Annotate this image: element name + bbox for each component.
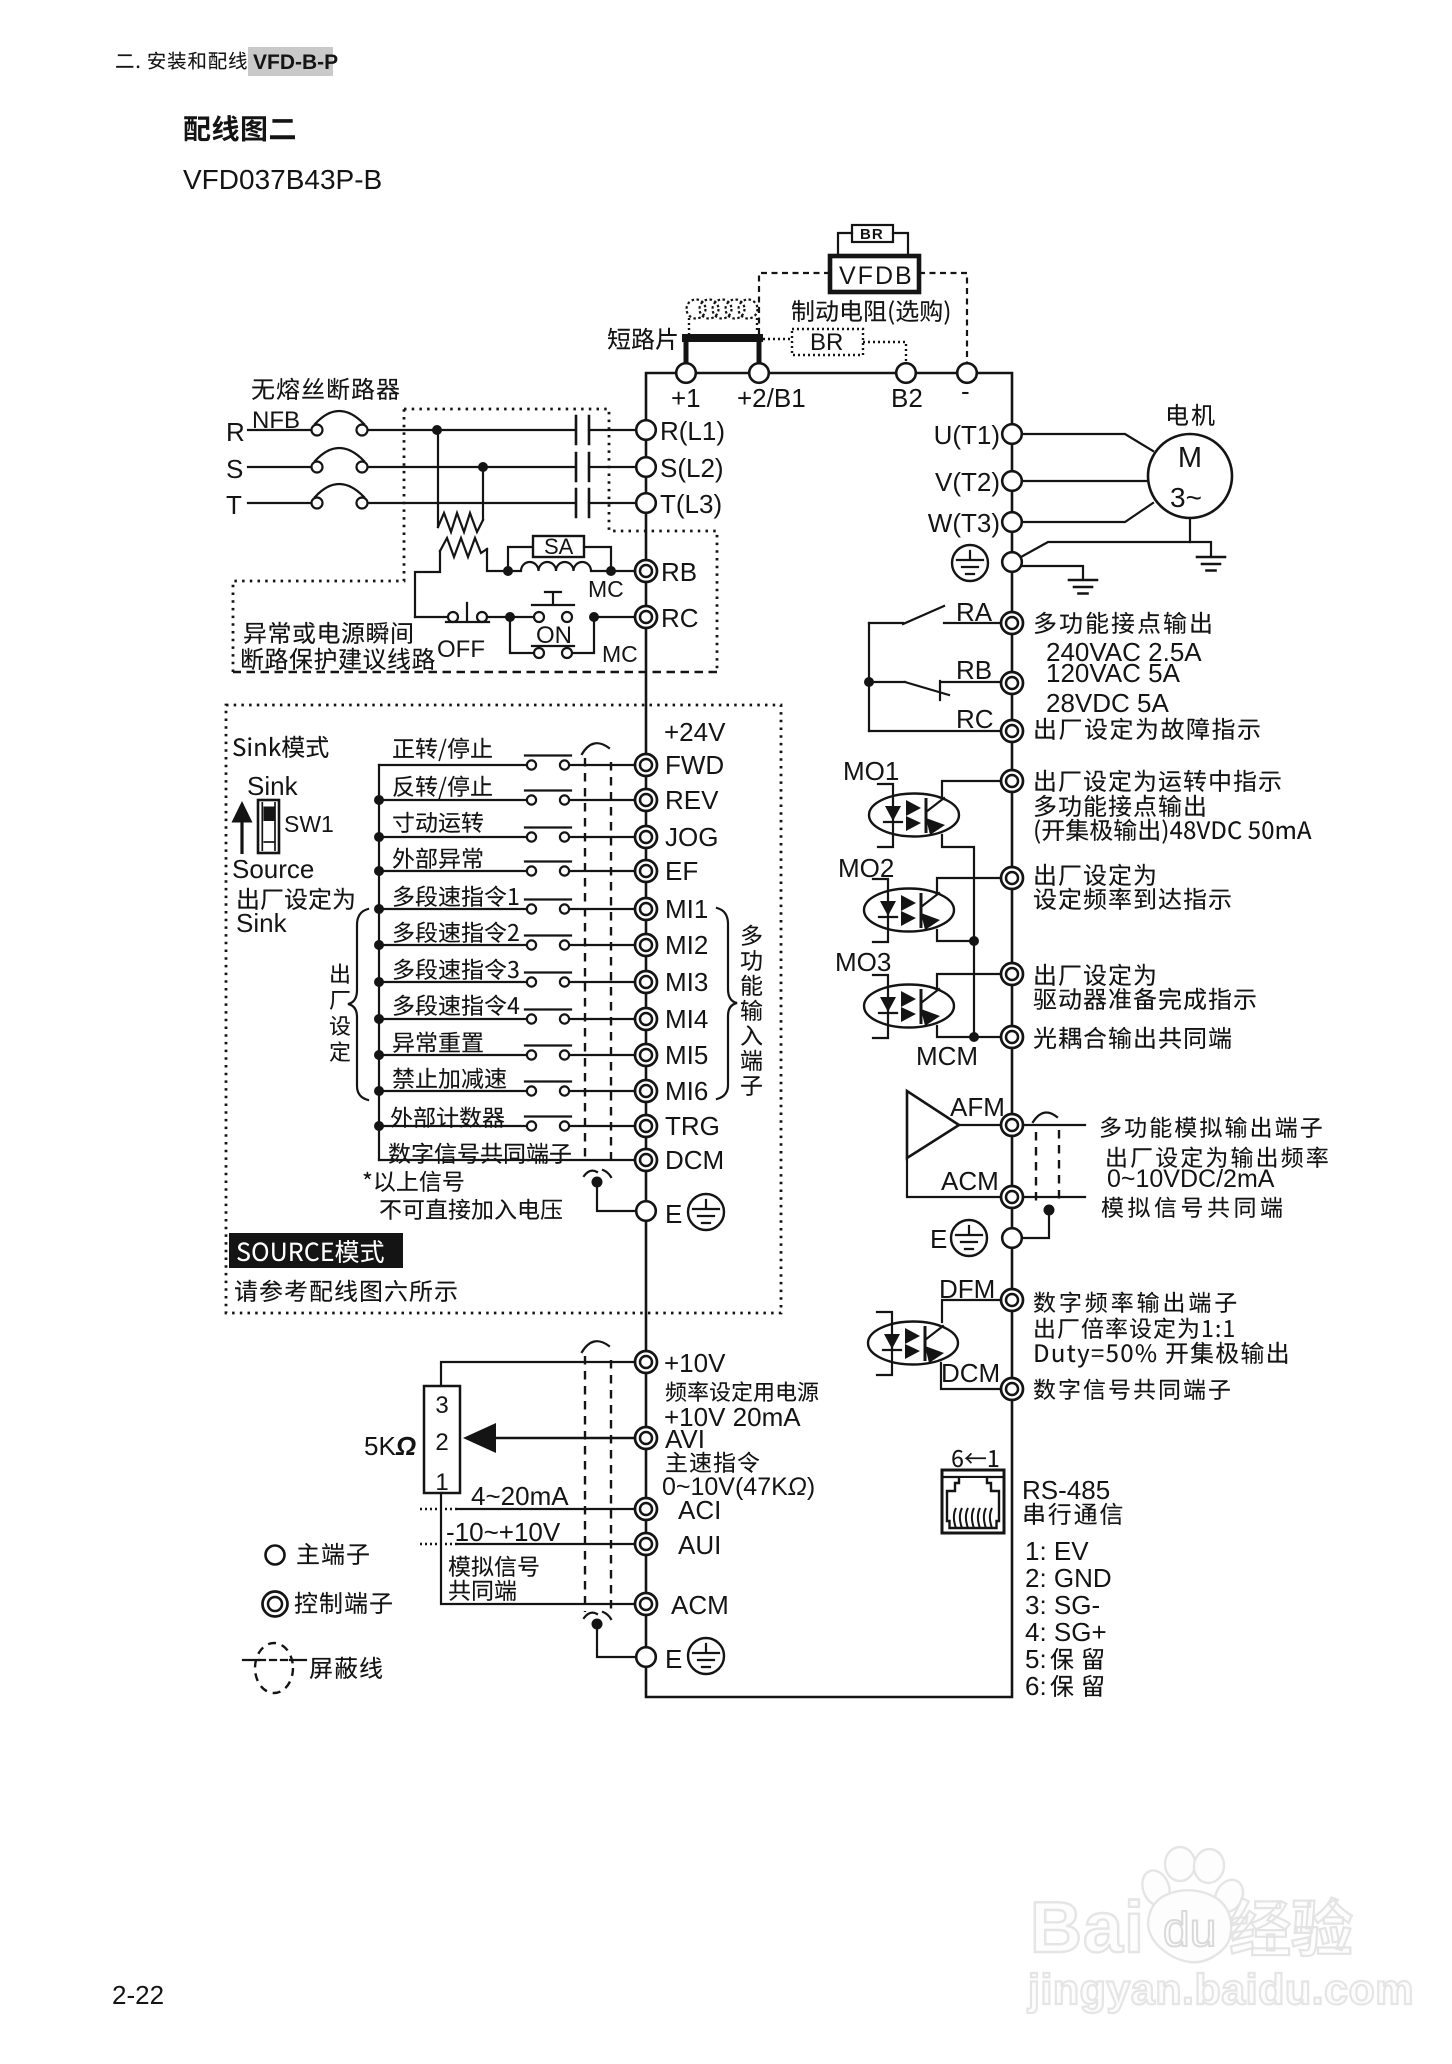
svg-text:DCM: DCM xyxy=(665,1145,724,1175)
wire S to filter xyxy=(368,466,574,468)
label 光耦合输出共同端 xyxy=(1034,1027,1231,1049)
svg-text:RB: RB xyxy=(661,557,697,587)
svg-text:Sink: Sink xyxy=(236,908,288,938)
wire EF row xyxy=(379,870,526,872)
svg-text:1: EV: 1: EV xyxy=(1025,1536,1089,1566)
surge absorber SA box xyxy=(533,536,584,557)
junction JOG bus xyxy=(374,832,384,842)
wire MI5 row xyxy=(379,1054,526,1056)
junction MI6 bus xyxy=(374,1086,384,1096)
shield drain hat analog xyxy=(584,1612,611,1619)
vtext 出 xyxy=(331,964,349,984)
wire earth up to motor run xyxy=(1021,542,1190,557)
wire SA parallel left xyxy=(508,547,533,571)
wire relay common xyxy=(868,623,870,731)
capacitor T xyxy=(576,489,589,517)
junction MI5 bus xyxy=(374,1050,384,1060)
wire DFM collector xyxy=(942,1300,1001,1322)
svg-text:MI2: MI2 xyxy=(665,930,708,960)
earth symbol E digital xyxy=(688,1194,724,1230)
wire pot pin1 to ACM xyxy=(441,1493,635,1604)
earth symbol E out xyxy=(951,1220,987,1256)
svg-text:4~20mA: 4~20mA xyxy=(471,1481,569,1511)
svg-text:ACM: ACM xyxy=(671,1590,729,1620)
label 模拟信号共同端 xyxy=(1102,1197,1282,1218)
terminal AFM xyxy=(1001,1114,1023,1136)
connector RJ11 pins xyxy=(954,1508,992,1528)
switch SW1 arrow xyxy=(240,820,243,854)
svg-text:V(T2): V(T2) xyxy=(935,467,1000,497)
wire S drop xyxy=(482,467,484,520)
svg-text:MC: MC xyxy=(588,576,624,602)
wire T to filter xyxy=(368,502,574,504)
wire ACM ext xyxy=(1023,1196,1085,1198)
svg-text:E: E xyxy=(665,1644,682,1674)
terminal MI3 xyxy=(635,971,657,993)
svg-text:FWD: FWD xyxy=(665,750,724,780)
wire shield to E xyxy=(597,1182,636,1211)
reactor coil (optional DC choke, dashed) xyxy=(689,318,757,335)
label 异常重置 xyxy=(393,1032,483,1053)
wire shield to E out xyxy=(1022,1210,1049,1238)
breaker NFB pole R xyxy=(312,425,323,436)
wire S to terminal xyxy=(589,466,636,468)
junction MI3 bus xyxy=(374,977,384,987)
inverter outline box xyxy=(646,373,1012,1697)
wire MO1 emitter xyxy=(942,835,974,941)
terminal B2 xyxy=(896,363,916,383)
optocoupler DFM xyxy=(868,1312,958,1375)
terminal DFM xyxy=(1001,1289,1023,1311)
svg-text:0~10VDC/2mA: 0~10VDC/2mA xyxy=(1107,1165,1275,1193)
shield arc xyxy=(582,743,609,754)
contact MC auxiliary (parallel) xyxy=(510,617,594,653)
wire MO2 collector xyxy=(937,878,1001,894)
label 多功能接点输出2 xyxy=(1035,795,1205,817)
terminal earth inverter xyxy=(1002,552,1022,572)
svg-text:TRG: TRG xyxy=(665,1111,720,1141)
vtext 设 xyxy=(330,1016,350,1036)
dashed box sink/source section xyxy=(226,705,781,1313)
terminal RB xyxy=(1001,672,1023,694)
svg-text:B2: B2 xyxy=(891,383,923,413)
node ON right xyxy=(589,612,599,622)
earth symbol inverter xyxy=(952,545,988,581)
wire to RB xyxy=(611,570,636,572)
wire dashed VFDB right xyxy=(919,273,967,362)
junction REV bus xyxy=(374,795,384,805)
svg-text:BR: BR xyxy=(860,226,884,243)
svg-text:du: du xyxy=(1163,1904,1216,1957)
label 出厂设定为b xyxy=(1035,964,1154,986)
svg-text:+2/B1: +2/B1 xyxy=(737,383,806,413)
vtext 功 xyxy=(741,950,762,971)
wire JOG row xyxy=(379,836,526,838)
wire MI6 row xyxy=(379,1090,526,1092)
terminal RA xyxy=(1001,612,1023,634)
svg-text:RC: RC xyxy=(956,704,994,734)
terminal +10V xyxy=(635,1351,657,1373)
terminal V(T2) xyxy=(1002,471,1022,491)
wire R to filter xyxy=(368,429,574,431)
node MC coil left xyxy=(503,566,513,576)
label 频率设定用电源 xyxy=(666,1381,819,1402)
switch TRG xyxy=(525,1117,571,1131)
switch SW1 body xyxy=(258,800,279,853)
svg-text:jingyan.baidu.com: jingyan.baidu.com xyxy=(1027,1966,1414,2014)
wire T in xyxy=(248,502,311,504)
svg-text:Bai: Bai xyxy=(1030,1888,1145,1968)
wire DCM row xyxy=(379,1159,635,1161)
wire ACI dotted stub xyxy=(420,1508,458,1510)
svg-text:S: S xyxy=(226,454,243,484)
svg-text:MI1: MI1 xyxy=(665,894,708,924)
node MC coil right xyxy=(606,566,616,576)
brake unit VFDB box xyxy=(830,256,919,292)
wire BR leads xyxy=(838,233,908,256)
wire REV row xyxy=(379,799,526,801)
resistor lower zigzag xyxy=(440,538,487,557)
contact RA (NO) xyxy=(869,606,1001,624)
wire R in xyxy=(248,429,311,431)
wire MCM bus xyxy=(974,941,1001,1037)
svg-text:E: E xyxy=(930,1224,947,1254)
label 模拟信号 xyxy=(449,1556,539,1577)
resistor BR (small box) xyxy=(852,225,893,242)
breaker NFB pole S xyxy=(312,462,323,473)
shield drain dot analog xyxy=(592,1619,603,1630)
label 数字信号共同端子2 xyxy=(1034,1379,1230,1400)
svg-text:-10~+10V: -10~+10V xyxy=(446,1517,561,1547)
vtext 子 xyxy=(741,1076,762,1096)
label 外部计数器 xyxy=(391,1107,505,1128)
terminal MI4 xyxy=(635,1008,657,1030)
svg-text:AVI: AVI xyxy=(665,1424,705,1454)
svg-text:MCM: MCM xyxy=(916,1041,978,1071)
wire MO2 emitter xyxy=(937,930,974,941)
terminal MO2 xyxy=(1001,867,1023,889)
breaker NFB pole T xyxy=(312,498,323,509)
legend 主端子 xyxy=(297,1543,369,1565)
label 出厂设定为a xyxy=(1035,864,1154,886)
optocoupler MO3 xyxy=(864,975,954,1038)
capacitor S xyxy=(576,453,589,481)
svg-text:REV: REV xyxy=(665,785,719,815)
terminal ACM out xyxy=(1001,1186,1023,1208)
ground inverter xyxy=(1069,580,1097,594)
legend main terminal xyxy=(266,1546,285,1565)
junction TRG bus xyxy=(374,1121,384,1131)
svg-text:3~: 3~ xyxy=(1170,482,1202,513)
terminal E digital xyxy=(636,1201,656,1221)
vtext 端 xyxy=(741,1050,762,1071)
legend shielded wire xyxy=(255,1643,293,1693)
svg-text:Source: Source xyxy=(232,854,314,884)
label 反转/停止 xyxy=(393,776,492,800)
label 设定频率到达指示 xyxy=(1034,888,1231,910)
junction EF bus xyxy=(374,866,384,876)
connector RJ11 cavity xyxy=(947,1478,999,1528)
shield drain hat xyxy=(584,1170,611,1177)
junction dot R xyxy=(432,425,442,435)
wire R drop xyxy=(437,430,439,527)
connector RJ11 outer xyxy=(942,1470,1004,1533)
terminal MO1 xyxy=(1001,770,1023,792)
terminal EF xyxy=(635,860,657,882)
svg-text:MI4: MI4 xyxy=(665,1004,708,1034)
svg-text:R: R xyxy=(226,417,245,447)
vtext 多 xyxy=(742,925,762,946)
label 出厂设定为故障指示 xyxy=(1035,718,1259,740)
watermark paw xyxy=(1138,1847,1249,1962)
svg-text:ACI: ACI xyxy=(678,1495,721,1525)
svg-text:4: SG+: 4: SG+ xyxy=(1025,1617,1107,1647)
wire MI2 row xyxy=(379,944,526,946)
wire ACM from amp xyxy=(907,1158,1001,1197)
title 配线图二 xyxy=(184,115,295,141)
wire dotted BR left xyxy=(763,338,792,340)
svg-text:ACM: ACM xyxy=(941,1166,999,1196)
svg-text:MI5: MI5 xyxy=(665,1040,708,1070)
wire MI1 row xyxy=(379,908,526,910)
label 短路片 xyxy=(608,328,677,350)
svg-text:T(L3): T(L3) xyxy=(660,489,722,519)
svg-text:S(L2): S(L2) xyxy=(660,453,724,483)
vtext 定 xyxy=(330,1041,350,1062)
terminal JOG xyxy=(635,826,657,848)
label 禁止加减速 xyxy=(393,1068,506,1089)
junction relay xyxy=(864,677,874,687)
pushbutton OFF xyxy=(415,616,447,618)
label 多段速指令4 xyxy=(394,995,520,1017)
shorting bar (short-circuit plate) xyxy=(682,334,763,342)
shield wires AFM dashed xyxy=(1036,1130,1059,1203)
svg-text:-: - xyxy=(961,376,970,406)
label 共同端 xyxy=(449,1580,516,1601)
legend 控制端子 xyxy=(295,1592,392,1614)
capacitor R xyxy=(576,416,589,444)
svg-text:2: 2 xyxy=(435,1429,448,1456)
label 数字频率输出端子 xyxy=(1034,1292,1236,1314)
label 多段速指令3 xyxy=(394,959,519,981)
svg-text:VFD037B43P-B: VFD037B43P-B xyxy=(183,164,382,195)
label 驱动器准备完成指示 xyxy=(1034,988,1256,1011)
label 数字信号共同端子 xyxy=(389,1143,571,1164)
wire dashed VFDB left xyxy=(759,273,830,335)
pushbutton ON upper contact xyxy=(534,612,544,622)
amplifier AFM xyxy=(907,1091,959,1158)
svg-text:RA: RA xyxy=(956,597,993,627)
shield drain dot AFM xyxy=(1044,1205,1055,1216)
wire zigzag left leg xyxy=(415,551,440,617)
wire TRG row xyxy=(379,1125,526,1127)
svg-text:W(T3): W(T3) xyxy=(928,508,1000,538)
wire to RC xyxy=(594,616,636,618)
wire RC xyxy=(869,730,1001,732)
switch MI2 xyxy=(525,936,571,950)
svg-text:3: SG-: 3: SG- xyxy=(1025,1590,1100,1620)
svg-text:MI3: MI3 xyxy=(665,967,708,997)
wire MI3 row xyxy=(379,981,526,983)
terminal U(T1) xyxy=(1002,424,1022,444)
svg-text:R(L1): R(L1) xyxy=(660,416,725,446)
terminal RB xyxy=(635,560,657,582)
label 多功能模拟输出端子 xyxy=(1101,1117,1322,1138)
terminal S(L2) xyxy=(636,457,656,477)
wire AFM xyxy=(959,1124,1001,1126)
junction MI1 bus xyxy=(374,904,384,914)
svg-text:RC: RC xyxy=(661,603,699,633)
optocoupler MO1 xyxy=(869,784,959,847)
wire MO3 collector xyxy=(937,974,1001,990)
label 出厂设定为 xyxy=(238,888,353,910)
ground motor xyxy=(1197,557,1225,571)
header chapter xyxy=(116,52,247,70)
wire W to motor xyxy=(1022,503,1153,522)
label 多段速指令1 xyxy=(394,886,519,908)
terminal TRG xyxy=(635,1115,657,1137)
terminal T(L3) xyxy=(636,493,656,513)
svg-text:VFDB: VFDB xyxy=(839,262,914,290)
label 正转/停止 xyxy=(393,738,492,762)
svg-text:120VAC 5A: 120VAC 5A xyxy=(1046,658,1181,688)
svg-text:MC: MC xyxy=(602,641,638,667)
label 外部异常 xyxy=(393,848,482,869)
wire ACI xyxy=(458,1508,635,1510)
svg-text:Sink: Sink xyxy=(247,771,299,801)
terminal MCM xyxy=(1001,1026,1023,1048)
motor M 3~ xyxy=(1148,434,1232,518)
vtext 厂 xyxy=(330,991,350,1010)
wiper arrow AVI xyxy=(490,1437,635,1440)
brace right 多功能输入端子 xyxy=(717,908,737,1099)
wire R to terminal xyxy=(589,429,636,431)
label 寸动运转 xyxy=(393,812,483,833)
terminal E out xyxy=(1002,1228,1022,1248)
svg-text:RS-485: RS-485 xyxy=(1022,1475,1110,1505)
vtext 能 xyxy=(741,975,762,996)
label 主速指令 xyxy=(666,1452,759,1474)
svg-text:M: M xyxy=(1178,442,1202,474)
label 多段速指令2 xyxy=(394,922,519,944)
svg-text:2-22: 2-22 xyxy=(112,1980,164,2010)
label 出厂设定为输出频率 xyxy=(1107,1147,1327,1169)
svg-text:MI6: MI6 xyxy=(665,1076,708,1106)
source mode box text xyxy=(237,1240,384,1263)
label 6-1 xyxy=(952,1450,998,1468)
wire SA parallel right xyxy=(584,547,611,571)
legend 屏蔽线 xyxy=(310,1657,382,1679)
svg-text:+1: +1 xyxy=(671,383,701,413)
label 出厂设定为运转中指示 xyxy=(1035,770,1280,793)
label 保留5 xyxy=(1051,1648,1104,1670)
label 出厂倍率设定为1:1 xyxy=(1035,1317,1234,1339)
shield drain dot xyxy=(592,1177,603,1188)
terminal MI2 xyxy=(635,934,657,956)
svg-text:VFD-B-P: VFD-B-P xyxy=(253,51,338,74)
switch JOG xyxy=(525,828,571,842)
switch MI5 xyxy=(525,1046,571,1060)
wire AUI dotted stub xyxy=(420,1543,458,1545)
label 断路保护建议线路 xyxy=(242,648,435,670)
switch REV xyxy=(525,791,571,805)
label Sink模式 xyxy=(233,736,328,758)
shield wires dashed pair xyxy=(585,758,611,1160)
junction dot S xyxy=(478,462,488,472)
svg-text:U(T1): U(T1) xyxy=(934,420,1000,450)
svg-text:DCM: DCM xyxy=(941,1358,1000,1388)
dashed box protection bottom edge xyxy=(233,671,717,674)
node ON left xyxy=(505,612,515,622)
source mode black box xyxy=(229,1233,403,1268)
note 以上信号 xyxy=(363,1171,463,1192)
svg-text:MO2: MO2 xyxy=(838,853,894,883)
svg-text:AFM: AFM xyxy=(950,1092,1005,1122)
note 请参考配线图六所示 xyxy=(235,1280,457,1302)
wire U to motor xyxy=(1022,434,1153,451)
svg-text:E: E xyxy=(665,1199,682,1229)
terminal +2/B1 xyxy=(749,363,769,383)
label 制动电阻(选购) xyxy=(792,300,949,325)
label 电机 xyxy=(1168,404,1215,426)
svg-text:AUI: AUI xyxy=(678,1530,721,1560)
digital input bus xyxy=(378,765,380,1160)
terminal ACM xyxy=(635,1593,657,1615)
svg-text:MO3: MO3 xyxy=(835,947,891,977)
wire MI4 row xyxy=(379,1018,526,1020)
wire V to motor xyxy=(1022,480,1148,482)
wire DFM emitter xyxy=(941,1363,1001,1389)
junction MO2 emitter xyxy=(969,936,979,946)
svg-text:2: GND: 2: GND xyxy=(1025,1563,1112,1593)
svg-text:5:: 5: xyxy=(1025,1644,1047,1674)
label 异常或电源瞬间 xyxy=(244,622,412,644)
terminal E analog xyxy=(636,1647,656,1667)
wire T to terminal xyxy=(589,502,636,504)
svg-text:RB: RB xyxy=(956,655,992,685)
terminal MI5 xyxy=(635,1044,657,1066)
wire dotted BR right xyxy=(863,342,906,362)
header highlight xyxy=(248,47,333,76)
terminal MI1 xyxy=(635,898,657,920)
wire S in xyxy=(248,466,311,468)
label 保留6 xyxy=(1051,1675,1104,1697)
legend control terminal xyxy=(263,1592,288,1617)
svg-text:5KΩ: 5KΩ xyxy=(364,1431,416,1461)
watermark 经验 xyxy=(1230,1898,1352,1956)
resistor BR (dotted option box) xyxy=(792,329,863,355)
terminal W(T3) xyxy=(1002,512,1022,532)
terminal RC xyxy=(635,606,657,628)
label 开集极输出48VDC xyxy=(1035,819,1311,844)
svg-text:JOG: JOG xyxy=(665,822,718,852)
terminal REV xyxy=(635,789,657,811)
optocoupler MO2 xyxy=(864,879,954,942)
terminal minus xyxy=(957,363,977,383)
terminal ACI xyxy=(635,1498,657,1520)
terminal DCM xyxy=(635,1149,657,1171)
label 串行通信 xyxy=(1025,1503,1123,1525)
switch MI6 xyxy=(525,1082,571,1096)
wire MO3 emitter xyxy=(937,1026,974,1037)
wire +10V to pot xyxy=(441,1362,635,1386)
wire FWD row xyxy=(379,764,526,766)
potentiometer 5K box xyxy=(424,1386,460,1493)
switch MI4 xyxy=(525,1010,571,1024)
svg-text:EF: EF xyxy=(665,856,698,886)
terminal AVI xyxy=(635,1427,657,1449)
vtext 输 xyxy=(741,1000,763,1021)
